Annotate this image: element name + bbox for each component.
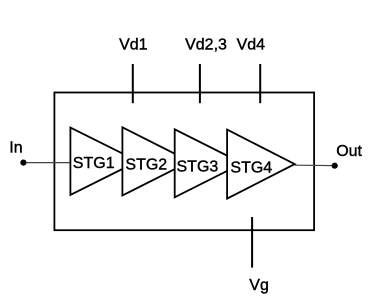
svg-text:Vg: Vg bbox=[249, 277, 269, 294]
svg-text:In: In bbox=[9, 139, 22, 156]
svg-text:Vd1: Vd1 bbox=[119, 37, 148, 54]
svg-text:Vd2,3: Vd2,3 bbox=[185, 37, 227, 54]
node input terminal bbox=[20, 160, 26, 166]
wire Vd1 supply stub bbox=[132, 64, 134, 103]
wire input bbox=[23, 162, 70, 164]
enclosure box U1 bbox=[54, 93, 314, 231]
wire Vd2,3 supply stub bbox=[199, 64, 201, 103]
svg-text:STG4: STG4 bbox=[230, 159, 272, 176]
amplifier STG3 bbox=[175, 129, 243, 197]
amplifier STG1 bbox=[70, 128, 138, 195]
node output terminal bbox=[332, 163, 338, 169]
wire Vd4 supply stub bbox=[259, 64, 261, 103]
amplifier STG2 bbox=[122, 127, 190, 195]
svg-text:Vd4: Vd4 bbox=[237, 37, 266, 54]
wire output bbox=[295, 164, 335, 166]
svg-text:STG3: STG3 bbox=[177, 159, 219, 176]
svg-text:STG1: STG1 bbox=[73, 155, 115, 172]
wire Vg gate stub bbox=[251, 217, 253, 268]
amplifier STG4 bbox=[227, 130, 295, 199]
svg-text:STG2: STG2 bbox=[125, 156, 167, 173]
svg-text:Out: Out bbox=[336, 143, 362, 160]
